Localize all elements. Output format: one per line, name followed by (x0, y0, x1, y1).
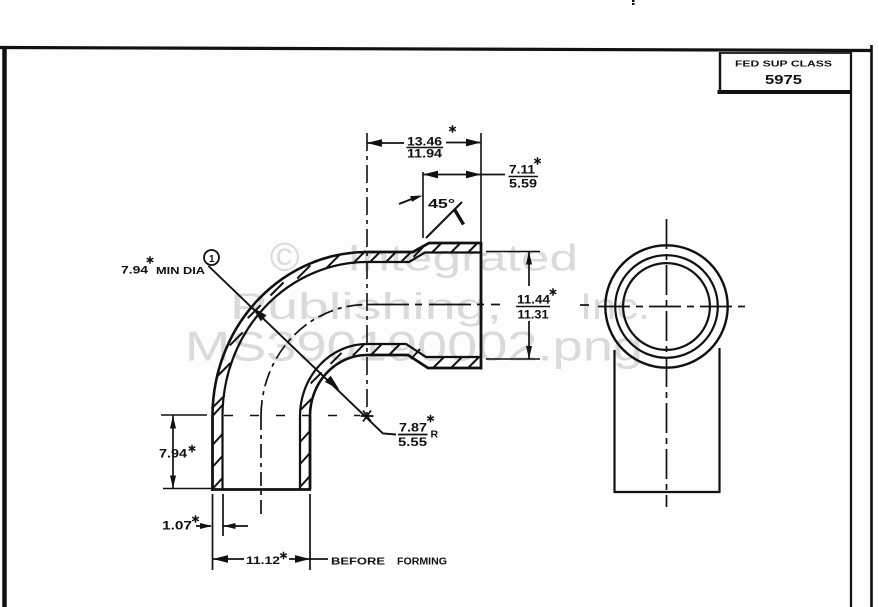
extension line flare start x=423 (422, 172, 424, 238)
svg-text:©: © (270, 236, 299, 280)
svg-text:1: 1 (209, 254, 215, 265)
centerline dash between views (580, 304, 589, 306)
svg-text:5975: 5975 (765, 73, 802, 87)
svg-text:11.12: 11.12 (246, 555, 280, 567)
hatching bottom wall (371, 344, 420, 359)
svg-text:11.31: 11.31 (518, 310, 550, 322)
frame top border (0, 48, 872, 51)
leader diagonal min dia / bend radius (209, 266, 397, 435)
frame outer right border (870, 45, 873, 607)
elbow inner wall surface (310, 355, 481, 490)
dimension 11.44/11.31 (486, 252, 556, 360)
dimension 13.46/11.94 (367, 125, 481, 160)
note 7.94 MIN DIA with balloon 1 (121, 250, 219, 277)
svg-text:Publishing,: Publishing, (230, 285, 502, 327)
extension line bottom face left (163, 488, 212, 490)
end view middle circle (615, 255, 718, 358)
hatching left wall (213, 405, 223, 489)
elbow bore right line (300, 344, 481, 490)
centerline vertical leg (260, 416, 262, 519)
svg-text:R: R (431, 429, 439, 441)
dimension 11.12 before forming (213, 552, 447, 568)
svg-text:45°: 45° (428, 196, 455, 211)
bend center star (361, 411, 374, 422)
speck dots top (632, 0, 635, 5)
extension line at bend tangent x=367 (366, 133, 368, 414)
svg-text:7.94: 7.94 (121, 265, 149, 277)
end view horizontal centerline (598, 306, 748, 308)
svg-text:5.59: 5.59 (509, 179, 537, 191)
extension lines wall thickness (213, 494, 224, 570)
svg-text:11.94: 11.94 (407, 147, 442, 161)
svg-text:7.11: 7.11 (509, 165, 536, 177)
dimension 7.94 vertical (159, 415, 195, 489)
frame left border (2, 46, 7, 607)
svg-text:5.55: 5.55 (398, 437, 428, 449)
elbow outer wall surface (213, 243, 482, 490)
centerline bend arc (261, 305, 367, 417)
svg-text:MIN DIA: MIN DIA (156, 265, 206, 277)
hatching bell top (432, 243, 478, 253)
svg-text:1.07: 1.07 (162, 521, 192, 533)
fed sup class box (718, 52, 852, 94)
frame inner right border (850, 50, 852, 607)
extension line right x=310 (309, 494, 311, 570)
svg-text:11.44: 11.44 (517, 295, 551, 307)
extension line tube end x=481 (480, 133, 482, 242)
hatching top wall (370, 247, 423, 262)
elbow bottom end face (211, 488, 311, 491)
hatching right wall (300, 431, 310, 487)
svg-text:FORMING: FORMING (397, 557, 447, 568)
hatching inner bend arc (300, 345, 364, 410)
svg-text:BEFORE: BEFORE (331, 557, 385, 568)
svg-text:MS390190002.png: MS390190002.png (185, 323, 643, 370)
dimension 7.87/5.55 R (398, 415, 439, 449)
hatching bell bottom (433, 357, 479, 368)
elbow end face right (480, 242, 483, 370)
extension line tangent y=415 (161, 414, 360, 417)
dimension 1.07 (162, 515, 248, 532)
dimension 7.11/5.59 (423, 157, 541, 190)
watermark line 1 (185, 236, 650, 370)
centerline horizontal leg (367, 304, 500, 306)
hatching outer bend arc (212, 251, 366, 409)
svg-text:7.87: 7.87 (399, 423, 427, 435)
elbow bore left line (223, 253, 482, 490)
svg-text:7.94: 7.94 (159, 449, 188, 461)
end view vertical centerline (666, 219, 668, 507)
45 degree chamfer note (399, 196, 464, 239)
end view tube body (614, 348, 721, 492)
end view outer circle (605, 245, 727, 367)
svg-text:FED SUP CLASS: FED SUP CLASS (735, 59, 832, 69)
end view bore circle (623, 263, 710, 350)
